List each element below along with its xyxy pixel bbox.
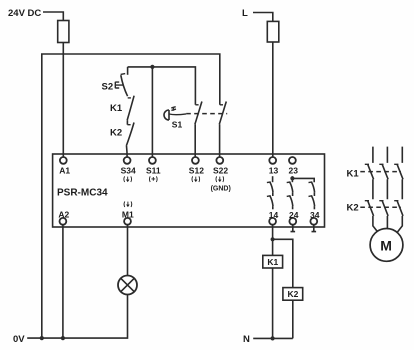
svg-text:K2: K2 <box>347 203 359 214</box>
svg-text:L: L <box>242 8 248 19</box>
svg-text:S12: S12 <box>189 166 204 176</box>
svg-text:S22: S22 <box>213 166 228 176</box>
svg-text:A1: A1 <box>59 166 70 176</box>
svg-text:(GND): (GND) <box>211 185 231 192</box>
svg-text:0V: 0V <box>13 334 25 345</box>
svg-text:24V DC: 24V DC <box>8 8 41 19</box>
svg-text:23: 23 <box>289 166 299 176</box>
svg-text:A2: A2 <box>58 209 69 219</box>
svg-text:S34: S34 <box>121 166 136 176</box>
svg-text:K1: K1 <box>347 168 360 179</box>
svg-text:S11: S11 <box>146 166 161 176</box>
svg-text:34: 34 <box>310 210 320 220</box>
svg-text:S1: S1 <box>172 120 183 130</box>
svg-text:S2: S2 <box>102 81 114 92</box>
svg-text:14: 14 <box>269 210 279 220</box>
svg-text:K2: K2 <box>288 289 299 299</box>
svg-text:M1: M1 <box>122 209 134 219</box>
svg-text:K1: K1 <box>110 103 123 114</box>
svg-text:K1: K1 <box>267 257 278 267</box>
svg-text:K2: K2 <box>110 127 122 138</box>
svg-text:M: M <box>380 237 392 253</box>
svg-text:13: 13 <box>269 166 279 176</box>
svg-text:PSR-MC34: PSR-MC34 <box>57 188 108 199</box>
svg-text:24: 24 <box>289 210 299 220</box>
svg-text:N: N <box>243 334 250 345</box>
